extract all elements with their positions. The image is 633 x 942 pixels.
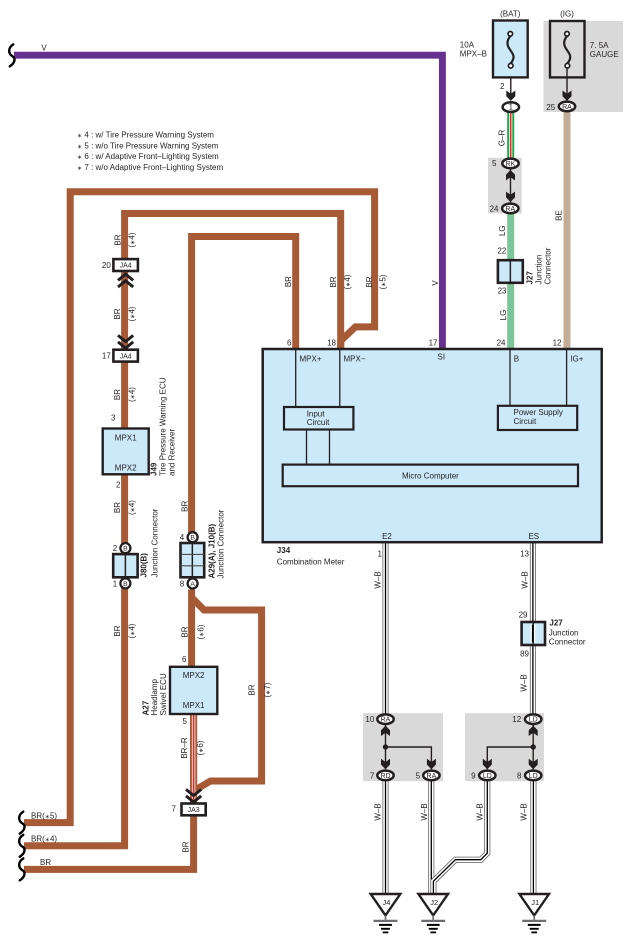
svg-text:3: 3 [111,413,116,422]
arrow up into LD 12 [529,726,538,736]
svg-text:B: B [123,581,128,588]
svg-text:Connector: Connector [543,247,552,284]
ground J2 [418,894,448,932]
svg-text:J27: J27 [549,619,563,628]
pin 6 label [287,338,292,347]
svg-text:RA: RA [381,717,391,724]
splice link left: RA10 to RD7 and RA5 [386,725,432,770]
splice link right: LD12 to LD9 and LD8 [487,725,533,770]
svg-text:MPX1: MPX1 [115,433,137,442]
svg-text:(∗4): (∗4) [127,387,136,402]
svg-text:(IG): (IG) [560,10,574,19]
svg-text:(∗6): (∗6) [196,624,205,639]
svg-text:E2: E2 [382,532,392,541]
svg-text:LD: LD [483,773,492,780]
svg-text:8: 8 [180,580,185,589]
gray highlight box around IG fuse [544,21,624,112]
connector RA pin 5 oval [416,771,440,781]
svg-text:A29(A), J10(B): A29(A), J10(B) [207,523,216,578]
svg-text:SI: SI [438,352,446,361]
svg-text:(∗4): (∗4) [127,623,136,638]
svg-text:RA: RA [427,773,437,780]
svg-text:BR: BR [113,234,122,245]
svg-text:JA3: JA3 [188,807,200,814]
arrow down into LD 8 [529,759,538,769]
arrow into RA 25 [563,91,572,101]
svg-text:8: 8 [517,771,522,780]
connector RD pin 7 oval [370,771,394,781]
arrow down into RD 7 [381,759,390,769]
svg-text:7: 7 [370,771,375,780]
legend note *6 [77,152,219,161]
svg-text:J34: J34 [277,546,291,555]
connector RK pin 5 oval [492,159,519,169]
arrow down into RA 5 [427,759,436,769]
gray highlight box around RA/RD splice (left) [363,713,443,781]
svg-text:BR(∗5): BR(∗5) [31,811,57,820]
junction dot left splice [383,744,388,749]
svg-text:Circuit: Circuit [307,418,330,427]
svg-text:MPX2: MPX2 [183,671,205,680]
svg-text:MPX–B: MPX–B [460,50,487,59]
svg-text:RA: RA [505,206,515,213]
svg-text:Connector: Connector [549,638,586,647]
svg-text:24: 24 [490,204,499,213]
svg-text:W–B: W–B [519,803,528,820]
links input circuit to micro computer [307,430,330,465]
junction connector A29(A), J10(B) [180,509,226,588]
J34 terminal MPX- pin 18 lead [340,350,366,407]
svg-text:J80(B): J80(B) [140,553,149,578]
wire BR(*7) branch from A29 pin 8 right and down to JA3 merge [193,599,273,791]
wire LG from RA pin 24 through J27 to B pin 24 [498,213,511,352]
link line between RK and RA [510,168,512,203]
svg-text:V: V [431,280,440,286]
svg-text:(∗7): (∗7) [263,682,272,697]
svg-text:12: 12 [512,715,521,724]
svg-text:W–B: W–B [475,803,484,820]
svg-text:JA4: JA4 [120,353,132,360]
svg-text:10A: 10A [460,41,475,50]
svg-text:12: 12 [553,338,562,347]
svg-text:13: 13 [520,550,529,559]
svg-text:W–B: W–B [420,803,429,820]
svg-text:2: 2 [116,480,121,489]
svg-text:7. 5A: 7. 5A [590,41,609,50]
ground J4 [371,894,401,932]
svg-text:J49: J49 [150,462,159,476]
junction dot right splice [531,744,536,749]
svg-text:A: A [190,581,195,588]
svg-text:BR: BR [182,841,191,852]
wire BR(*6) from A29 pin 8 down to A27 MPX2 pin 6 [181,590,206,669]
wire W-B from RA pin 5 down to ground J2 [420,781,431,893]
wire BR from break via bottom to JA3 pin 7 [19,815,193,880]
svg-text:MPX+: MPX+ [300,355,322,364]
svg-text:BR: BR [365,276,374,287]
wire V (purple) from break to SI pin 17 [9,44,442,352]
svg-text:∗ 7 : w/o Adaptive Front–Light: ∗ 7 : w/o Adaptive Front–Lighting System [77,163,223,172]
input circuit block [284,407,353,430]
arrow down into LD 9 [483,759,492,769]
svg-text:RD: RD [380,773,390,780]
J34 terminal MPX+ pin 6 lead [296,350,322,407]
connector RA pin 24 oval [490,204,519,214]
svg-text:V: V [41,44,47,53]
chevrons up into JA4 pin 20 [118,274,133,287]
svg-text:BR–R: BR–R [180,737,189,759]
combination meter J34 outer box [263,349,602,567]
svg-text:Combination Meter: Combination Meter [277,558,345,567]
svg-text:∗ 6 : w/ Adaptive Front–Lighti: ∗ 6 : w/ Adaptive Front–Lighting System [77,152,219,161]
pin 18 label [327,338,336,347]
svg-text:BR: BR [247,684,256,695]
wire W-B from LD pin 9 down joining ground J2 [433,781,487,894]
svg-text:Micro Computer: Micro Computer [402,471,459,480]
link line from IG fuse to RA pin 25 [566,68,568,100]
connector LD pin 8 oval [517,771,541,781]
svg-text:G–R: G–R [498,130,507,147]
arrow up into RK [506,170,515,180]
svg-text:89: 89 [520,650,529,659]
link line from BAT fuse to connector 1 [510,68,512,100]
fuse 10A MPX-B (BAT) [460,10,528,92]
J34 terminal SI pin 17 [438,352,446,361]
junction connector J80(B) [113,508,160,588]
svg-text:Power Supply: Power Supply [514,408,563,417]
svg-text:(∗4): (∗4) [127,306,136,321]
svg-text:BR: BR [329,276,338,287]
svg-text:24: 24 [497,338,506,347]
svg-text:W–B: W–B [374,803,383,820]
svg-text:IG+: IG+ [570,355,583,364]
connector JA3 pin 7 [172,804,206,816]
svg-text:BR: BR [113,308,122,319]
pin 24 label (B) [497,338,506,347]
svg-text:GAUGE: GAUGE [590,50,619,59]
svg-text:BR: BR [181,501,190,512]
svg-text:(∗6): (∗6) [196,740,205,755]
svg-text:BE: BE [555,210,564,221]
svg-text:J2: J2 [430,898,438,907]
svg-text:17: 17 [102,352,111,361]
J34 terminal B pin 24 lead [510,350,519,406]
svg-text:Swivel ECU: Swivel ECU [159,673,168,715]
ground J1 [519,894,549,932]
svg-text:MPX2: MPX2 [115,464,137,473]
svg-text:∗ 5 : w/o Tire Pressure Warnin: ∗ 5 : w/o Tire Pressure Warning System [77,141,219,150]
svg-text:BR: BR [113,389,122,400]
svg-text:BR: BR [113,502,122,513]
wire BR-R(*6) from A27 MPX1 pin 5 down to JA3 [180,713,205,804]
svg-text:6: 6 [287,338,292,347]
svg-text:Circuit: Circuit [514,417,537,426]
wire W-B from LD pin 8 down to ground J1 [519,781,533,893]
svg-text:Junction: Junction [534,255,543,285]
connector JA4 pin 17 [102,350,138,362]
junction connector J27 (upper) [497,247,552,296]
svg-text:BR: BR [181,626,190,637]
svg-text:Input: Input [307,409,326,418]
svg-text:18: 18 [327,338,336,347]
svg-text:W–B: W–B [520,571,529,588]
svg-text:2: 2 [500,82,505,91]
svg-text:1: 1 [378,550,383,559]
wire G-R from connector 1 down to RK pin 5 [498,112,511,159]
chevrons down into JA4 pin 17 [118,335,133,348]
connector JA4 pin 20 [102,259,138,271]
svg-text:BR: BR [284,276,293,287]
svg-text:and Receiver: and Receiver [167,429,176,476]
power supply circuit block [498,406,577,430]
svg-text:2: 2 [113,544,118,553]
junction connector J27 (lower right) [519,611,586,659]
wire BR(*5) outer loop: break, up x70, across y190, down to MPX- junction [19,192,387,834]
svg-text:5: 5 [492,159,497,168]
svg-text:MPX1: MPX1 [183,701,205,710]
connector RA pin 10 oval [365,714,393,724]
svg-text:Junction Connector: Junction Connector [216,509,225,578]
svg-text:LD: LD [529,773,538,780]
chevrons down into JA3 [186,789,201,802]
svg-text:∗ 4 : w/ Tire Pressure Warning: ∗ 4 : w/ Tire Pressure Warning System [77,131,214,140]
svg-text:23: 23 [498,287,507,296]
svg-text:MPX−: MPX− [344,355,366,364]
svg-text:JA4: JA4 [120,263,132,270]
J34 terminal IG+ pin 12 lead [567,350,584,406]
pin 17 label [429,338,438,347]
svg-text:7: 7 [172,805,177,814]
headlamp swivel ECU A27 [141,655,217,726]
svg-text:10: 10 [365,715,374,724]
svg-text:5: 5 [183,717,188,726]
svg-text:BR: BR [40,858,51,867]
legend note *5 [77,141,219,150]
svg-text:29: 29 [519,611,528,620]
svg-text:(∗5): (∗5) [378,274,387,289]
svg-text:4: 4 [180,533,185,542]
connector 1 oval [503,102,519,112]
svg-text:6: 6 [182,655,187,664]
wire W-B from E2 pin 1 down to RA pin 10 [374,543,386,714]
svg-text:(∗4): (∗4) [128,232,137,247]
svg-text:20: 20 [102,261,111,270]
legend note *7 [77,163,223,172]
svg-text:Tire Pressure Warning ECU: Tire Pressure Warning ECU [159,377,168,476]
svg-text:1: 1 [113,580,118,589]
svg-text:LD: LD [529,717,538,724]
svg-text:25: 25 [546,103,555,112]
svg-text:17: 17 [429,338,438,347]
svg-text:LG: LG [499,310,508,321]
connector RA pin 25 oval [559,102,575,112]
gray highlight box around LD splice (right) [465,713,544,781]
svg-text:BR: BR [113,625,122,636]
arrow down into RA 24 [506,192,515,202]
pin 12 label (IG+) [553,338,562,347]
wire W-B from RD pin 7 down to ground J4 [374,781,386,893]
svg-text:J27: J27 [525,271,534,285]
J34 terminal E2 pin 1 [378,532,393,559]
svg-text:Junction: Junction [549,629,579,638]
svg-text:ES: ES [528,532,539,541]
svg-text:W–B: W–B [519,674,528,691]
svg-text:1: 1 [509,103,514,112]
svg-text:A27: A27 [141,700,150,715]
svg-text:B: B [514,355,519,364]
wire BE from IG fuse RA pin 25 down to IG+ pin 12 [555,112,567,353]
svg-text:9: 9 [471,771,476,780]
svg-text:J1: J1 [531,898,539,907]
svg-text:22: 22 [497,247,506,256]
svg-text:J4: J4 [383,898,391,907]
svg-text:LG: LG [498,225,507,236]
svg-text:5: 5 [416,771,421,780]
svg-text:Junction Connector: Junction Connector [150,508,159,577]
svg-text:(∗4): (∗4) [127,500,136,515]
svg-text:B: B [123,546,128,553]
svg-text:RA: RA [562,104,572,111]
J34 terminal ES pin 13 [520,532,539,559]
svg-text:(∗4): (∗4) [343,274,352,289]
micro computer block [283,465,578,487]
svg-text:B: B [190,535,195,542]
connector LD pin 12 oval [512,714,541,724]
connector LD pin 9 oval [471,771,495,781]
tire pressure warning ECU J49 [103,377,177,489]
svg-text:RK: RK [506,161,516,168]
svg-text:BR(∗4): BR(∗4) [31,835,57,844]
svg-text:W–B: W–B [374,571,383,588]
arrow up into RA 10 [381,726,390,736]
wire BR(*4): break, up x124.6 through JA4/J49/J80 chain, across y213.5, down to MPX- pin 18 [19,214,352,857]
gray highlight box around RK/RA connectors [488,158,522,214]
arrow into connector 1 [506,91,515,101]
svg-text:(BAT): (BAT) [500,10,521,19]
wire BR from MPX+ pin 6 across y236.5 down to A29 junction connector pin 4 [181,237,296,536]
wire W-B from ES pin 13 through J27 to LD pin 12 [519,543,533,714]
legend note *4 [77,131,214,140]
fuse 7.5A GAUGE (IG) [546,10,618,113]
svg-text:Headlamp: Headlamp [150,678,159,715]
